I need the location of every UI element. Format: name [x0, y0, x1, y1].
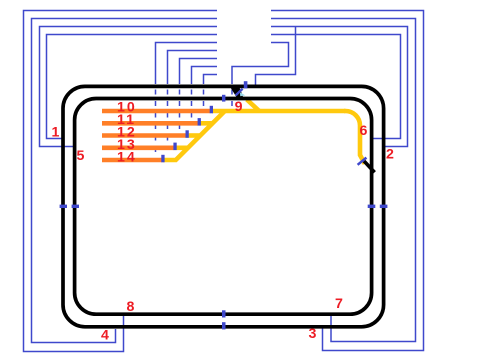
wire siding14 dashed drop: [155, 84, 157, 158]
crossover turnout outer-inner at top: [231, 88, 244, 98]
insulator tick siding 10: [210, 106, 213, 114]
turnout 9 diagonal branch from inner loop: [247, 100, 260, 112]
svg-text:6: 6: [360, 123, 370, 139]
outer loop track: [63, 86, 384, 326]
insulator tick siding 13: [173, 143, 176, 151]
selection diagonal tick at crossover: [236, 89, 243, 96]
svg-text:9: 9: [235, 99, 245, 115]
wire 7: inner loop bottom feeder, right route: [271, 19, 416, 342]
turnout 6 diagonal merge into inner loop: [364, 161, 375, 172]
tick inner loop left: [72, 205, 79, 208]
yellow runaround top-right curve and descent: [344, 111, 365, 164]
svg-text:3: 3: [309, 326, 319, 342]
tick inner loop top: [222, 95, 225, 102]
siding track 13: [102, 146, 174, 151]
wire siding11 solid part: [192, 67, 218, 85]
insulator tick siding 11: [198, 118, 201, 126]
svg-text:2: 2: [386, 147, 396, 163]
svg-text:14: 14: [117, 150, 137, 166]
ladder stub to siding 12: [186, 133, 201, 138]
wire 9 dashed drop to yard lead: [231, 84, 233, 107]
wire siding10 solid part: [204, 75, 218, 85]
svg-text:1: 1: [52, 125, 62, 141]
yard ladder diagonal yellow: [163, 111, 226, 160]
wire 2: outer loop right feeder: [271, 27, 408, 147]
tick inner loop bottom: [222, 310, 226, 317]
tick outer loop right: [380, 205, 388, 208]
inner loop track: [75, 99, 372, 315]
tick inner loop right: [368, 205, 376, 208]
svg-text:7: 7: [335, 296, 345, 312]
siding track 14: [102, 158, 162, 163]
tick outer loop bottom: [222, 322, 226, 329]
svg-text:8: 8: [127, 299, 137, 315]
wire siding10 dashed drop: [203, 84, 205, 109]
wire siding14 solid part: [156, 43, 218, 85]
wire 9 solid part: turnout 9 feeder: [232, 43, 289, 85]
svg-text:5: 5: [77, 148, 87, 164]
ladder stub to siding 13: [174, 146, 189, 151]
wire 4: outer loop bottom feeder, left route: [32, 19, 218, 343]
ladder stub to siding 11: [199, 121, 214, 126]
cursor triangle turquoise: [240, 92, 245, 96]
wire siding12 solid part: [180, 59, 218, 85]
wire 8: inner loop bottom feeder, left route: [24, 11, 218, 352]
insulator tick siding 12: [186, 130, 189, 138]
tick outer loop left: [60, 205, 67, 208]
yard lead main line yellow: [212, 109, 346, 114]
siding track 10: [102, 109, 210, 114]
wire siding13 solid part: [168, 51, 218, 85]
siding track 11: [102, 121, 198, 126]
selection diagonal tick at turnout 6: [358, 158, 367, 165]
wire 6: inner loop right feeder: [271, 35, 401, 139]
svg-text:4: 4: [101, 328, 111, 344]
wire 1: outer loop left feeder: [47, 35, 218, 139]
tick outer loop top: [244, 81, 248, 88]
wire siding11 dashed drop: [191, 84, 193, 121]
insulator tick siding 14: [161, 155, 164, 163]
wire 5: inner loop left feeder: [40, 27, 218, 147]
wire 2 branch to outer loop top: [256, 27, 296, 85]
wire siding12 dashed drop: [179, 84, 181, 133]
siding track 12: [102, 133, 186, 138]
wire 3: outer loop bottom feeder, right route: [271, 11, 424, 351]
wire siding13 dashed drop: [167, 84, 169, 145]
